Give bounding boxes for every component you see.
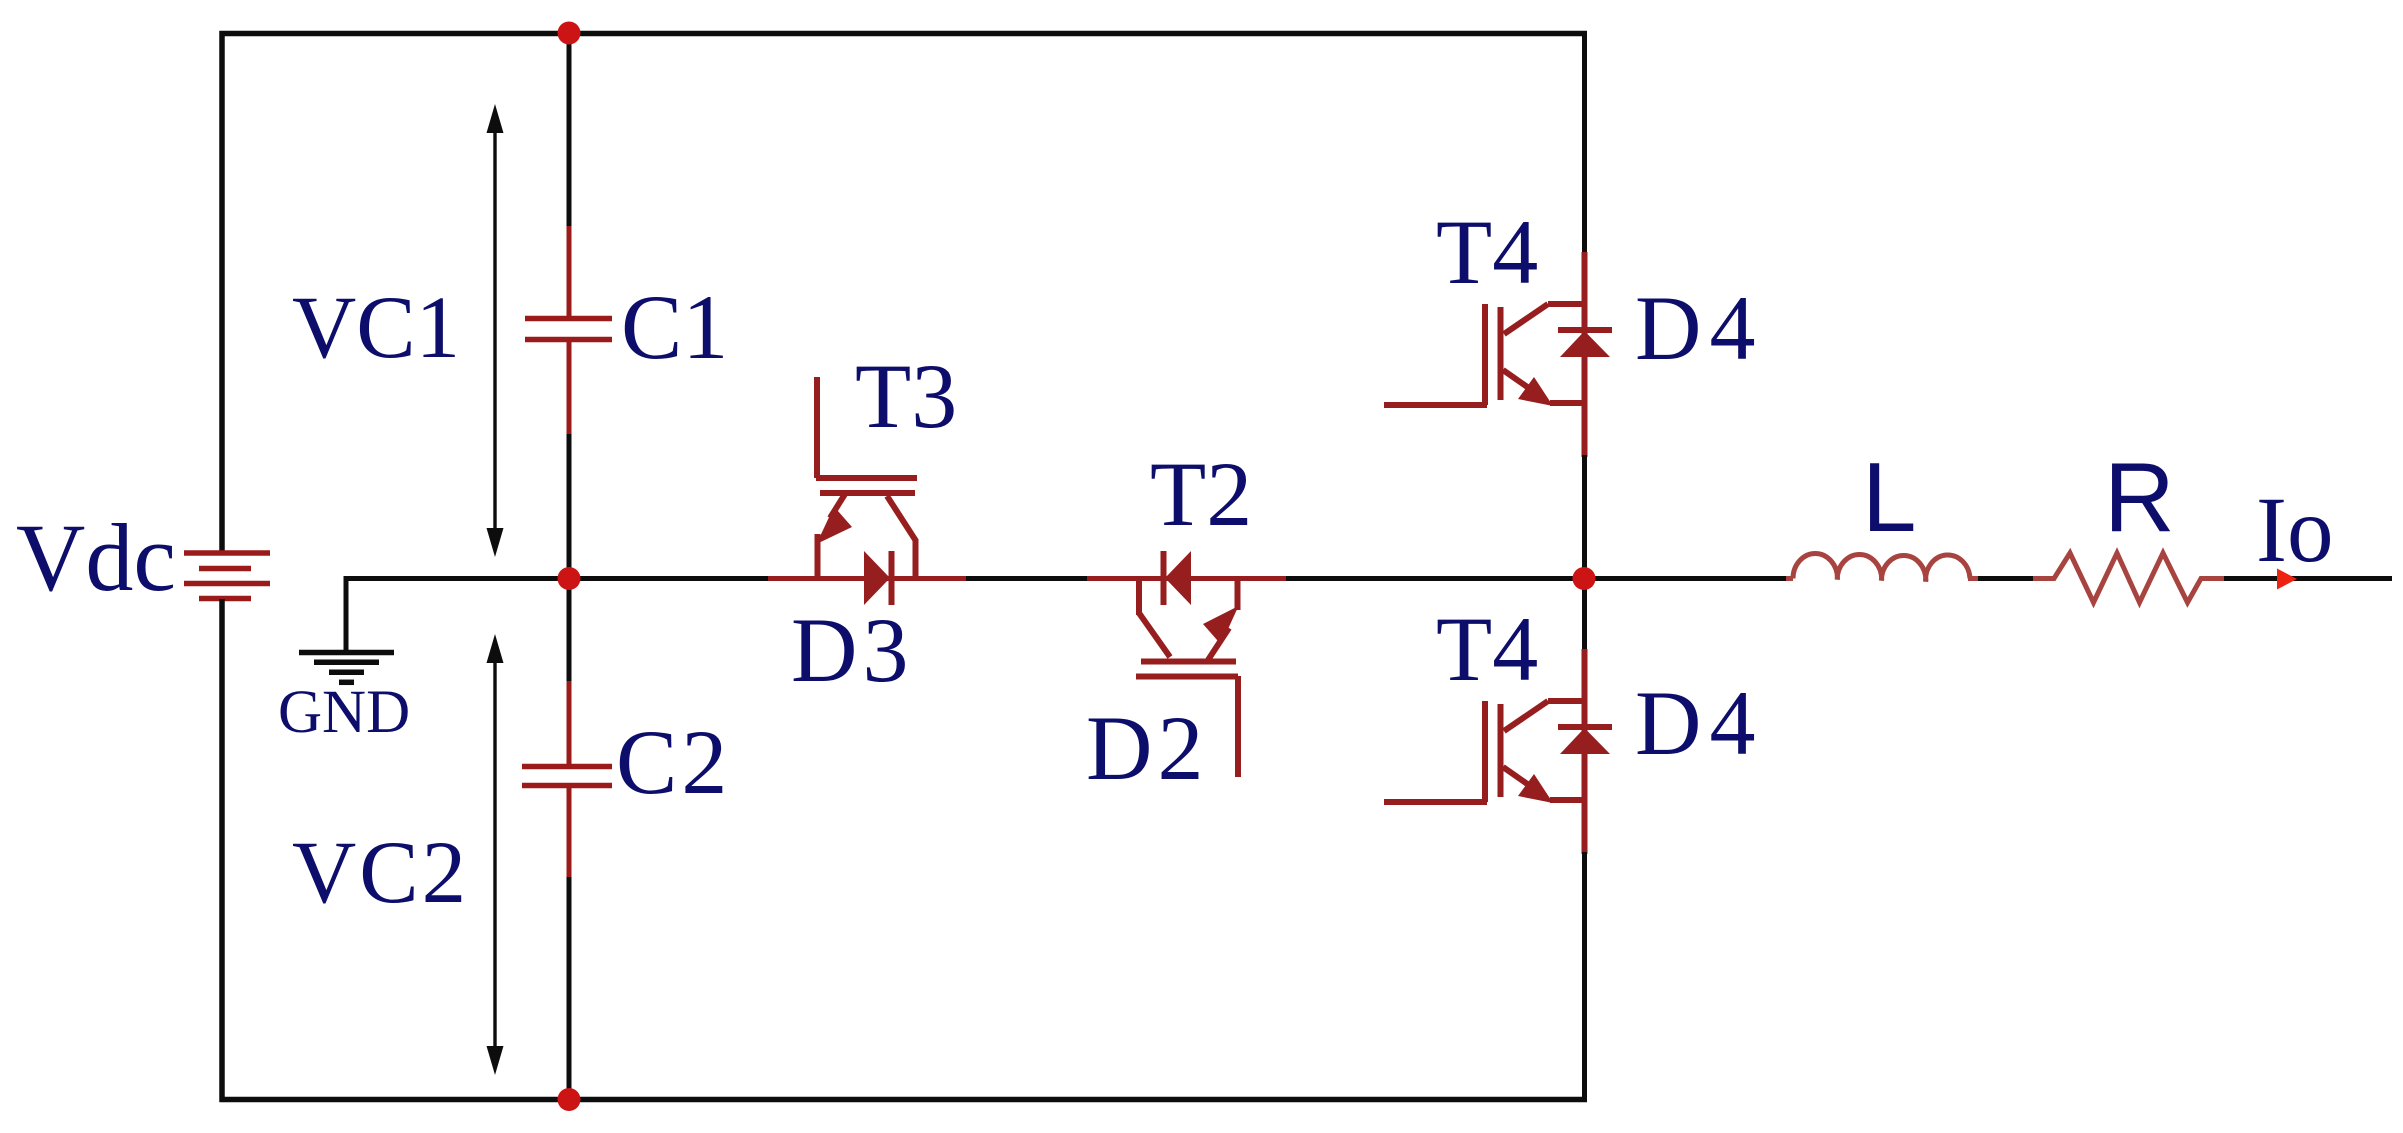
battery Vdc [184,553,270,599]
wire: C1 branch upper black lead [567,33,572,228]
transistor T4 (top) [1384,252,1586,457]
diode D4 (top) [1558,330,1612,357]
svg-text:D3: D3 [791,599,913,701]
svg-text:D4: D4 [1635,277,1763,379]
diode D4 (bottom) [1558,727,1612,754]
node: bottom junction dot [558,1088,581,1111]
node: midpoint junction dot [558,567,581,590]
Io current arrow [2277,569,2297,590]
wire: right border top segment [1582,31,1587,254]
svg-text:T4: T4 [1436,201,1538,303]
svg-text:C1: C1 [621,276,728,378]
wire: C1 branch lower black lead [567,434,572,570]
svg-text:T4: T4 [1436,598,1538,700]
resistor R [2033,553,2225,603]
wire: top border [220,31,1588,37]
svg-text:C2: C2 [616,711,731,813]
capacitor C2 [522,681,612,878]
VC2 measurement arrow [487,634,504,1075]
node: output junction dot [1573,567,1596,590]
transistor T3 [816,377,917,578]
wire: output node to inductor [1584,576,1788,581]
svg-text:D4: D4 [1635,672,1763,774]
wire: left border lower [219,599,225,1102]
svg-text:T2: T2 [1150,443,1252,545]
svg-text:T3: T3 [855,345,957,447]
wire: inductor to resistor [1978,576,2034,581]
capacitor C1 [525,226,612,435]
wire: right border mid segment [1582,455,1587,651]
wire: GND stub [346,579,569,653]
svg-text:R: R [2104,442,2175,552]
wire: C2 branch lower black lead [567,877,572,1099]
wire: right border bottom segment [1582,852,1587,1102]
VC1 measurement arrow [487,104,504,557]
wire: left border upper [219,31,225,552]
wire: mid red segment under T2/D2 [1087,576,1288,581]
inductor L [1786,553,1979,581]
wire: C2 branch upper black lead [567,586,572,682]
wire: mid wire T3 to T2 [966,576,1089,581]
svg-text:D2: D2 [1086,697,1208,799]
transistor T4 (bottom) [1384,649,1586,854]
svg-text:L: L [1862,442,1917,552]
diode D3 [864,551,892,605]
wire: resistor to output end [2224,576,2392,581]
diode D2 [1164,551,1192,605]
wire: mid red segment under T3/D3 [768,576,967,581]
svg-text:Io: Io [2256,479,2333,582]
ground GND [299,653,394,683]
wire: mid wire dot to T3 [569,576,770,581]
transistor T2 [1136,578,1239,777]
node: top junction dot [558,22,581,45]
svg-text:Vdc: Vdc [16,504,176,611]
svg-text:GND: GND [278,679,410,746]
svg-text:VC1: VC1 [292,279,460,377]
wire: bottom border [220,1097,1588,1103]
svg-text:VC2: VC2 [292,824,469,922]
wire: mid wire T2 to output node [1286,576,1584,581]
